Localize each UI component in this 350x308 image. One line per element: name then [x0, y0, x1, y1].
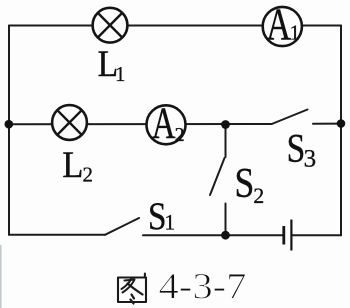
ammeter A1 [263, 0, 302, 49]
label S1 [148, 195, 175, 238]
svg-text:2: 2 [83, 163, 94, 187]
wire S3 contact [313, 123, 341, 125]
wire S2 branch upper [225, 125, 227, 158]
label S3 [287, 125, 317, 172]
label S2 [235, 161, 265, 208]
switch S2 blade [210, 158, 225, 195]
svg-text:L: L [62, 145, 83, 186]
wire right [340, 26, 342, 236]
svg-text:1: 1 [115, 62, 126, 86]
ammeter A2 [147, 98, 186, 147]
switch S1 blade [105, 218, 139, 235]
svg-text:2: 2 [253, 183, 264, 208]
node bottom junction [221, 231, 230, 240]
scan artifact left edge streak [0, 245, 2, 308]
switch S3 blade [272, 110, 308, 125]
label L1 [98, 44, 126, 86]
svg-text:S: S [235, 161, 255, 207]
svg-text:2: 2 [175, 124, 185, 146]
battery cell [284, 220, 292, 251]
svg-text:A: A [152, 98, 176, 147]
node middle junction [221, 120, 230, 129]
wire middle row [9, 123, 272, 125]
wire bottom-middle [143, 234, 283, 236]
label L2 [62, 145, 93, 187]
node left junction [5, 120, 14, 129]
svg-text:4-3-7: 4-3-7 [159, 267, 247, 308]
svg-text:1: 1 [164, 210, 175, 235]
wire S2 branch lower [225, 204, 227, 236]
wire top [9, 25, 341, 27]
lamp L1 [93, 8, 128, 43]
wire bottom-left [9, 234, 105, 236]
wire left [8, 26, 10, 235]
svg-text:3: 3 [304, 146, 317, 173]
node right junction [337, 119, 346, 128]
svg-text:A: A [266, 0, 291, 49]
lamp L2 [52, 105, 87, 140]
wire bottom-right [292, 234, 341, 236]
svg-text:1: 1 [290, 21, 301, 45]
svg-text:S: S [287, 125, 306, 170]
caption hanzi tu (drawn) [118, 274, 146, 304]
